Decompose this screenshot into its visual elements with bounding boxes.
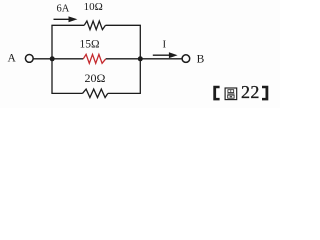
value label 20Ω <box>85 71 106 85</box>
resistor 10Ω (top branch) <box>84 21 105 30</box>
value label 15Ω <box>79 38 99 50</box>
terminal B (open circle) <box>182 55 190 63</box>
wire top branch left segment <box>51 24 84 26</box>
label B <box>197 53 205 65</box>
resistor 20Ω (bottom branch) <box>83 89 108 97</box>
current arrow 6A <box>54 16 78 22</box>
wire left rail (vertical) <box>51 25 53 93</box>
svg-text:I: I <box>162 39 166 51</box>
wire middle branch right segment <box>106 58 141 60</box>
caption right lenticular bracket 】 <box>262 86 268 101</box>
label I <box>162 39 166 51</box>
wire right node to terminal B <box>140 58 182 60</box>
svg-text:10Ω: 10Ω <box>84 1 103 13</box>
label A <box>8 52 17 64</box>
caption character 圖 (figure) <box>225 88 237 100</box>
wire top branch right segment <box>106 24 141 26</box>
caption number 22 <box>241 82 260 102</box>
node right junction <box>138 56 143 61</box>
value label 10Ω <box>84 1 103 13</box>
current arrow I <box>153 52 178 58</box>
wire right rail (vertical) <box>139 25 141 93</box>
svg-text:A: A <box>8 52 17 64</box>
wire middle branch left segment <box>52 58 83 60</box>
terminal A (open circle) <box>25 55 33 63</box>
svg-text:22: 22 <box>241 82 260 102</box>
node left junction <box>50 56 55 61</box>
resistor 15Ω (middle branch, red) <box>83 54 106 63</box>
wire terminal A to left node <box>33 58 52 60</box>
wire bottom branch left segment <box>51 92 82 94</box>
caption left lenticular bracket 【 <box>213 86 219 101</box>
svg-text:20Ω: 20Ω <box>85 71 106 85</box>
svg-text:6A: 6A <box>56 3 69 14</box>
svg-text:15Ω: 15Ω <box>79 38 99 50</box>
label 6A <box>56 3 69 14</box>
svg-text:B: B <box>197 53 205 65</box>
wire bottom branch right segment <box>108 92 141 94</box>
